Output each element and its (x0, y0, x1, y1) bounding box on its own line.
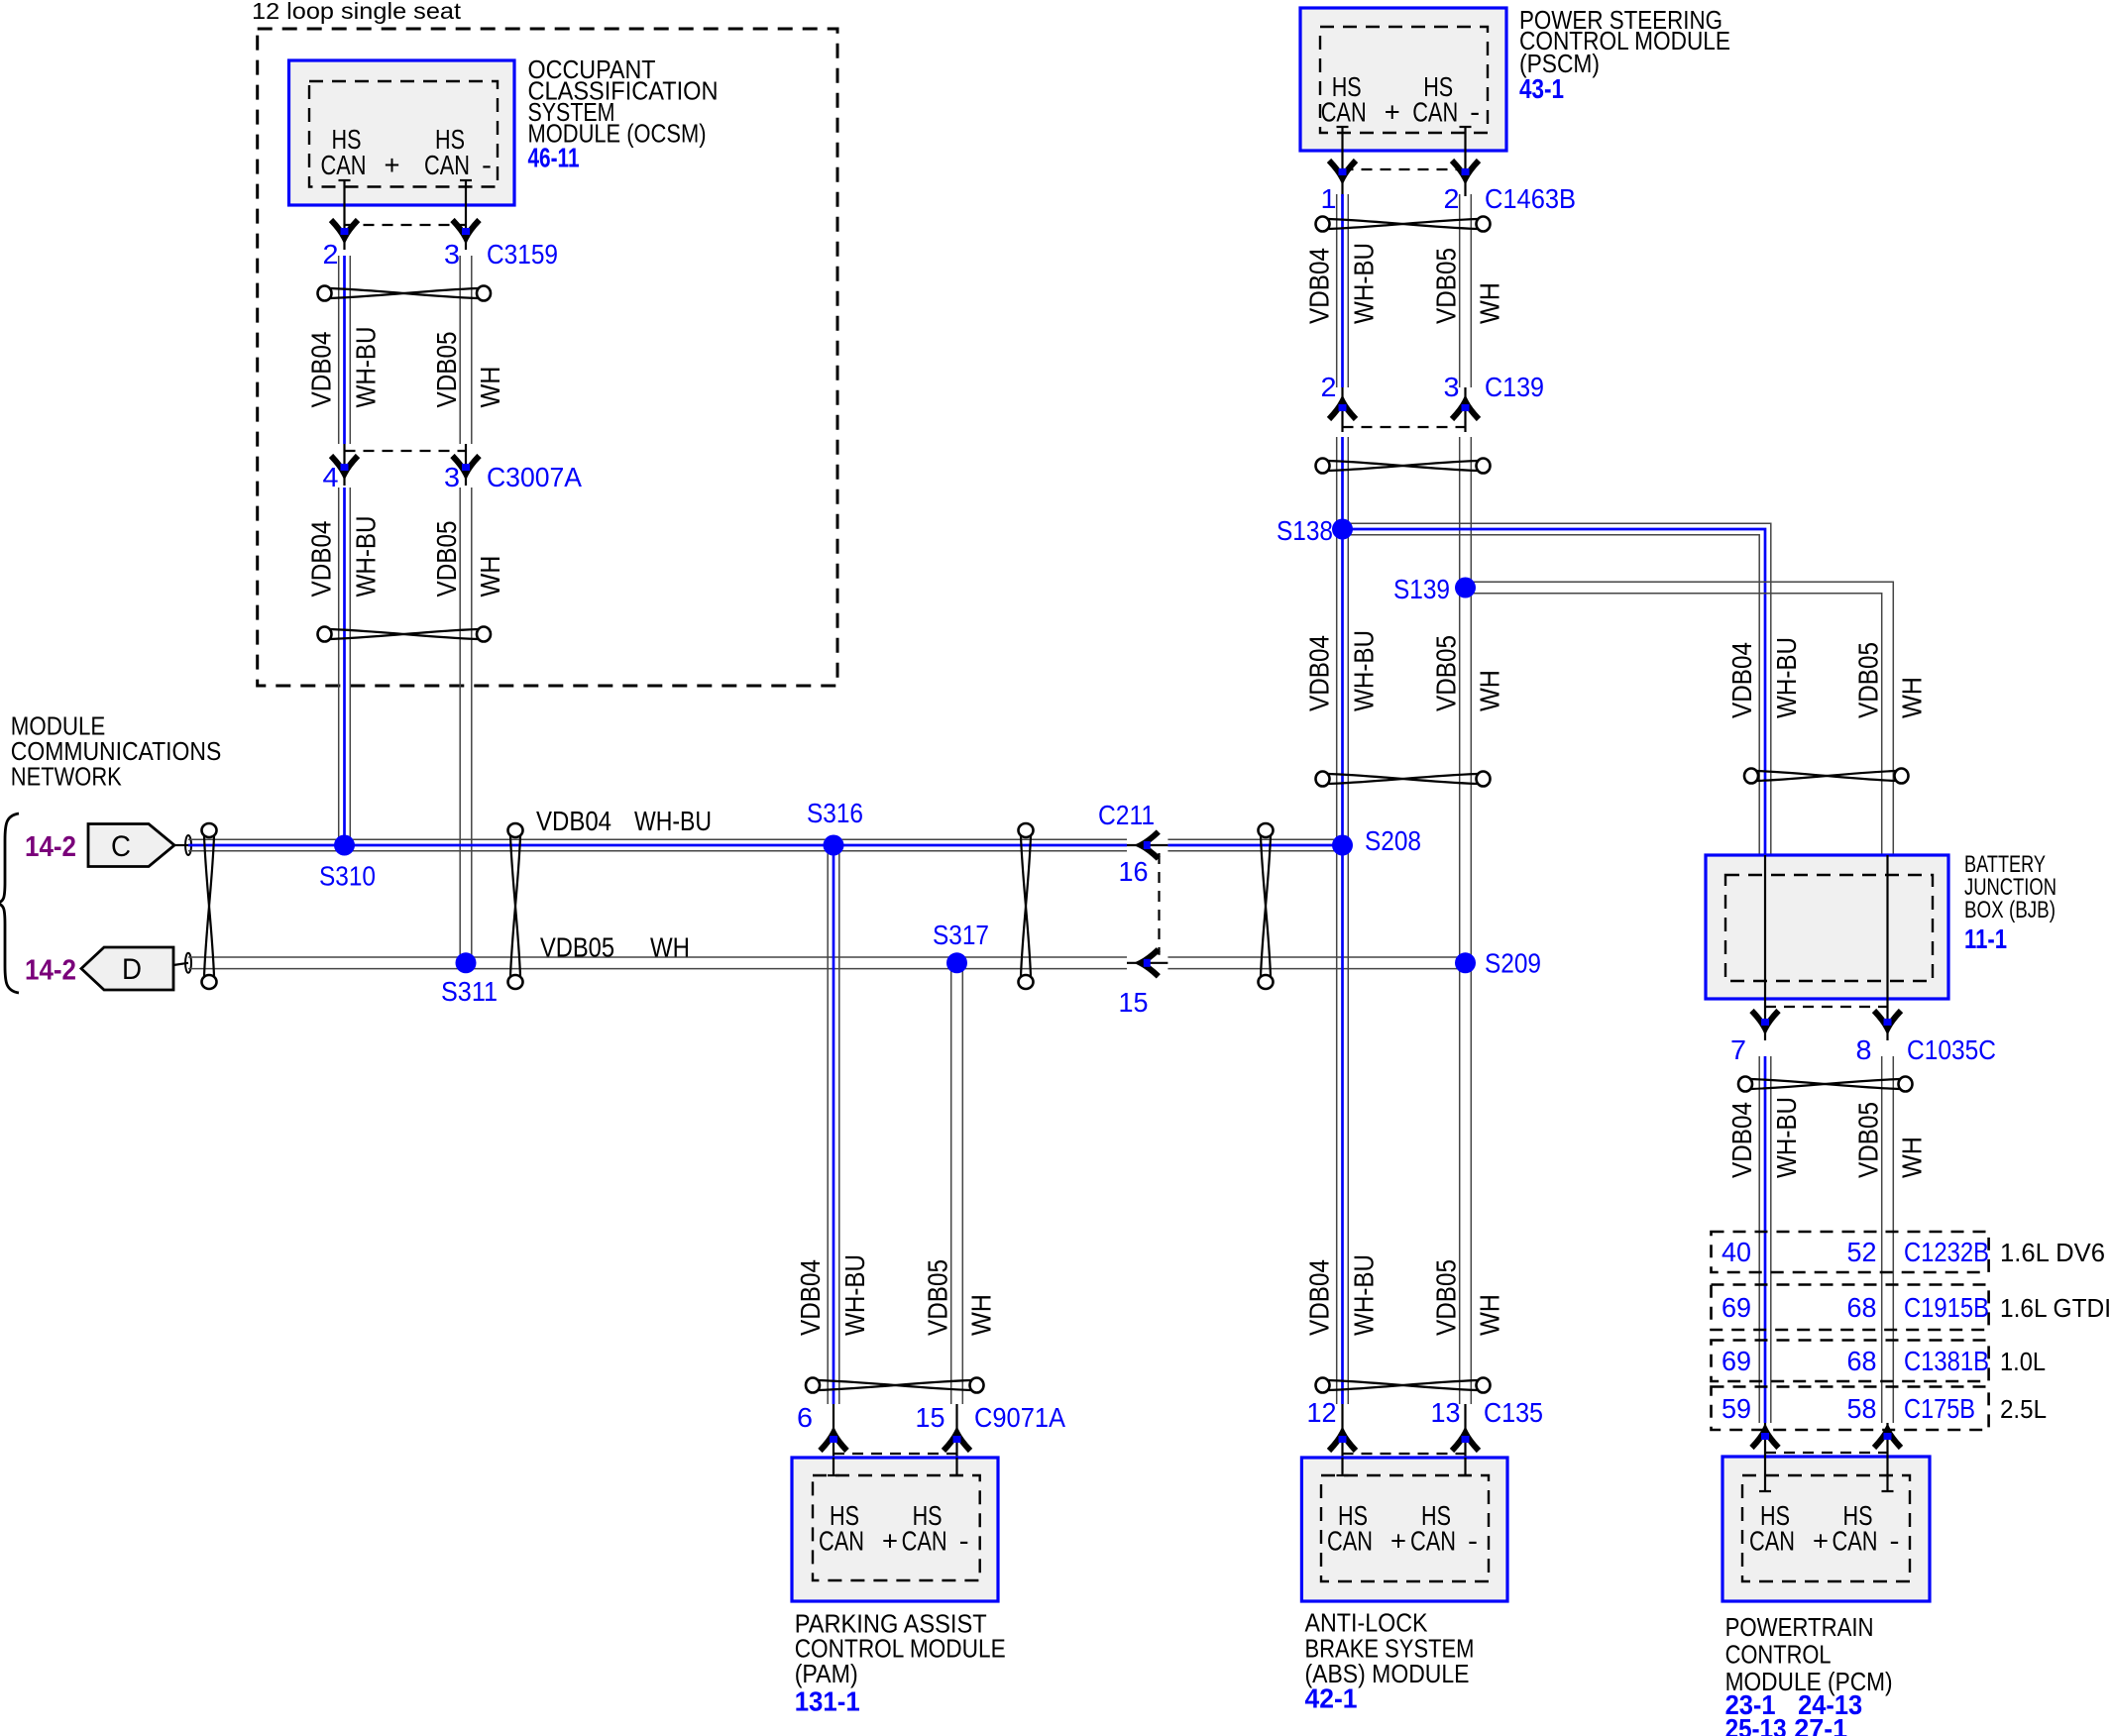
connector C1463B pin 1 arrow (1329, 161, 1356, 178)
svg-text:-: - (1468, 1525, 1478, 1556)
svg-text:52: 52 (1847, 1237, 1877, 1267)
connector C9071A pin 6 lead (833, 1404, 834, 1458)
connector C9071A pin 6 number (797, 1402, 813, 1433)
bus wire VDB05 WH (C211 to S209) (1167, 957, 1465, 969)
wire labels (S139 to S208 segment) (1304, 630, 1505, 711)
wire VDB04 WH-BU (PSCM seg1) (1337, 194, 1349, 387)
connector C1232B name (1904, 1237, 1989, 1267)
bus label WH (650, 932, 690, 963)
svg-text:VDB04: VDB04 (795, 1259, 826, 1336)
wire labels (ABS column) (1304, 1254, 1505, 1336)
svg-text:C1915B: C1915B (1904, 1292, 1989, 1323)
module BJB box (1706, 855, 1948, 999)
connector C211 pin 15 lead (1127, 962, 1167, 964)
svg-text:VDB04: VDB04 (1726, 642, 1757, 718)
connector C3007A dashed link (345, 450, 467, 452)
engine option box 1.6L GTDI connector C1915B (1712, 1285, 1989, 1331)
svg-text:-: - (1890, 1525, 1900, 1556)
svg-text:WH: WH (966, 1294, 997, 1336)
svg-text:16: 16 (1119, 856, 1149, 887)
svg-text:WH: WH (1897, 1137, 1928, 1178)
svg-text:CAN: CAN (1833, 1525, 1878, 1556)
svg-text:VDB05: VDB05 (431, 521, 462, 597)
connector C139 pin 2 arrow (1329, 401, 1356, 419)
branch wire VDB04 WH-BU (S138 to BJB) (1343, 523, 1771, 855)
brace (0, 814, 19, 993)
connector C9071A dashed link (833, 1453, 957, 1455)
svg-text:15: 15 (916, 1402, 945, 1433)
connector C1463B pin 2 arrow (1452, 161, 1479, 178)
module ABS pin labels (1327, 1500, 1478, 1557)
PCM pin lead left (1759, 1423, 1771, 1491)
svg-text:+: + (1813, 1525, 1829, 1556)
svg-text:WH-BU: WH-BU (839, 1254, 870, 1336)
connector C1915B name (1904, 1292, 1989, 1323)
svg-text:14-2: 14-2 (25, 831, 76, 863)
svg-text:VDB05: VDB05 (923, 1259, 953, 1336)
svg-text:(PAM): (PAM) (795, 1659, 858, 1688)
connector C139 pin 3 arrow (1452, 401, 1479, 419)
svg-text:C9071A: C9071A (974, 1402, 1065, 1433)
svg-text:WH-BU: WH-BU (1349, 1254, 1380, 1336)
PCM connector dashed link (1765, 1452, 1888, 1454)
svg-text:CAN: CAN (902, 1525, 947, 1556)
PAM pin leads inside box (828, 1458, 963, 1475)
connector C139 pin 2 number (1321, 372, 1337, 402)
svg-text:1.6L GTDI: 1.6L GTDI (2000, 1293, 2111, 1323)
connector C1035C name (1907, 1034, 1996, 1065)
PCM pin arrow right (1874, 1430, 1901, 1448)
connector C9071A name (974, 1402, 1065, 1433)
off-page connector D flag (81, 947, 173, 990)
svg-text:VDB05: VDB05 (1431, 635, 1462, 711)
svg-text:VDB04: VDB04 (536, 806, 611, 836)
svg-text:S209: S209 (1485, 948, 1541, 979)
svg-text:1.0L: 1.0L (2000, 1347, 2046, 1376)
svg-text:WH: WH (1475, 1294, 1505, 1336)
connector C175B name (1904, 1393, 1975, 1424)
splice S139 label (1393, 574, 1450, 604)
connector C1463B name (1485, 183, 1576, 214)
branch wire VDB05 WH (S139 to BJB) (1466, 582, 1894, 855)
svg-text:S138: S138 (1277, 515, 1333, 546)
splice S311 (441, 952, 498, 1007)
svg-text:46-11: 46-11 (528, 143, 580, 173)
connector C1463B pin 2 number (1444, 183, 1460, 214)
module BJB page ref 11-1 (1964, 923, 2007, 954)
connector C135 pin 13 lead (1464, 1404, 1466, 1458)
splice S316 (807, 798, 863, 856)
module PSCM page ref 43-1 (1519, 73, 1564, 104)
svg-text:VDB04: VDB04 (1304, 1259, 1335, 1336)
connector C1463B pin 1 number (1321, 183, 1337, 214)
connector C211 pin 16 arrow (1141, 832, 1159, 859)
PCM pin arrow left (1752, 1430, 1779, 1448)
wire labels (OCSM seg1) (306, 327, 506, 408)
connector C3159 pin 3 arrow (453, 220, 480, 238)
module PSCM pin labels (1321, 71, 1481, 128)
svg-text:S310: S310 (319, 861, 376, 892)
svg-text:POWERTRAIN: POWERTRAIN (1725, 1612, 1874, 1642)
bus label VDB04 (536, 806, 611, 836)
svg-text:13: 13 (1431, 1397, 1461, 1428)
BJB internal wire right (1886, 855, 1888, 1040)
svg-text:VDB05: VDB05 (1431, 248, 1462, 324)
engine label 1.0L (2000, 1347, 2046, 1376)
svg-text:C3159: C3159 (487, 239, 558, 270)
svg-text:S311: S311 (441, 976, 498, 1007)
bus wire VDB04 WH-BU (C211 to S208) (1167, 839, 1342, 851)
connector C1035C dashed link (1765, 1006, 1888, 1008)
engine option box 1.6L DV6 connector C1232B (1712, 1232, 1989, 1272)
connector C1035C pin 7 arrow (1752, 1011, 1779, 1029)
svg-text:25-13: 25-13 (1725, 1713, 1787, 1736)
svg-text:+: + (1390, 1525, 1406, 1556)
module PCM page refs (1725, 1689, 1863, 1736)
connector C3007A pin 4 arrow (331, 456, 358, 474)
connector C175B pin 59 number (1722, 1393, 1751, 1424)
svg-text:14-2: 14-2 (25, 955, 76, 987)
PCM pin lead right (1882, 1423, 1894, 1491)
wire VDB04 WH-BU (C139 to ABS) (1337, 437, 1349, 1404)
wire VDB05 WH (OCSM seg2) (460, 488, 472, 963)
svg-text:C: C (111, 830, 131, 863)
connector C1232B pin 52 number (1847, 1237, 1877, 1267)
OCSM pin 2 lead wire (339, 180, 351, 250)
svg-text:VDB04: VDB04 (1726, 1102, 1757, 1178)
connector C211 pin 16 number (1119, 856, 1149, 887)
engine label 1.6L GTDI (2000, 1293, 2111, 1323)
svg-text:1: 1 (1321, 183, 1337, 214)
BJB internal wire left (1764, 855, 1766, 1040)
twisted pair symbol (below C139) (1316, 459, 1491, 474)
svg-text:131-1: 131-1 (795, 1686, 860, 1717)
connector C1463B dashed link (1343, 168, 1466, 170)
connector C211 pin 15 number (1119, 987, 1149, 1018)
svg-text:WH: WH (1897, 677, 1928, 718)
svg-text:+: + (882, 1525, 898, 1556)
svg-text:WH-BU: WH-BU (1349, 630, 1380, 711)
svg-text:WH: WH (475, 556, 505, 597)
connector C139 pin 3 lead (1464, 387, 1466, 432)
svg-text:+: + (385, 150, 400, 180)
svg-text:C175B: C175B (1904, 1393, 1975, 1424)
svg-text:4: 4 (323, 462, 339, 492)
svg-text:3: 3 (1444, 372, 1460, 402)
svg-text:C135: C135 (1484, 1397, 1543, 1428)
connector C3159 pin 2 arrow (331, 220, 358, 238)
connector C211 pin 15 arrow (1141, 949, 1159, 976)
engine label 2.5L (2000, 1394, 2047, 1424)
module BJB name label (1964, 851, 2056, 923)
engine label 1.6L DV6 (2000, 1238, 2105, 1267)
bus twisted pair symbol 1 (202, 823, 217, 989)
connector C3159 pin 2 number (323, 239, 339, 270)
svg-text:11-1: 11-1 (1964, 923, 2007, 954)
connector C1035C pin 8 number (1856, 1034, 1872, 1065)
wire VDB05 WH (PAM column) (951, 963, 963, 1404)
svg-text:S139: S139 (1393, 574, 1450, 604)
svg-text:69: 69 (1722, 1346, 1751, 1376)
connector C9071A pin 15 arrow (944, 1433, 970, 1451)
splice S208 (1332, 825, 1421, 856)
bus twisted pair symbol 2 (508, 823, 523, 989)
wire labels (BJB to PCM) (1726, 1097, 1928, 1178)
bus wire VDB04 WH-BU (left of C211) (188, 839, 1127, 851)
svg-text:1.6L DV6: 1.6L DV6 (2000, 1238, 2105, 1267)
svg-text:VDB04: VDB04 (306, 332, 337, 408)
svg-text:42-1: 42-1 (1305, 1683, 1358, 1714)
svg-text:WH-BU: WH-BU (1349, 243, 1380, 324)
connector C1381B name (1904, 1346, 1989, 1376)
module PCM box (1722, 1457, 1930, 1601)
module PSCM name label (1519, 5, 1730, 78)
wire VDB04 WH-BU (BJB to PCM) (1759, 1056, 1771, 1423)
svg-text:S208: S208 (1365, 825, 1421, 856)
svg-text:WH: WH (1475, 670, 1505, 711)
svg-text:CAN: CAN (1412, 97, 1458, 128)
connector C139 pin 3 number (1444, 372, 1460, 402)
svg-text:C3007A: C3007A (487, 462, 582, 492)
connector C135 pin 12 lead (1341, 1404, 1343, 1458)
connector C211 name (1098, 800, 1155, 830)
bus1 start loop (185, 835, 191, 855)
bus twisted pair symbol 3 (1019, 823, 1034, 989)
connector C3159 name (487, 239, 558, 270)
connector C3159 pin 3 number (444, 239, 460, 270)
connector C1915B pin 69 number (1722, 1292, 1751, 1323)
module PAM box (792, 1458, 998, 1601)
svg-text:-: - (1470, 97, 1480, 128)
ABS pin leads inside box (1337, 1458, 1472, 1475)
svg-text:WH: WH (650, 932, 690, 963)
splice S310 (319, 835, 376, 892)
splice S209 (1455, 948, 1541, 979)
twisted pair symbol (PSCM seg1) (1316, 217, 1491, 232)
svg-text:15: 15 (1119, 987, 1149, 1018)
label 12 loop single seat (252, 0, 462, 24)
svg-text:C1381B: C1381B (1904, 1346, 1989, 1376)
svg-text:VDB04: VDB04 (1304, 248, 1335, 324)
svg-text:8: 8 (1856, 1034, 1872, 1065)
svg-text:CAN: CAN (1749, 1525, 1795, 1556)
connector C135 pin 13 number (1431, 1397, 1461, 1428)
module ABS page ref 42-1 (1305, 1683, 1358, 1714)
svg-text:CAN: CAN (1410, 1525, 1456, 1556)
svg-text:CAN: CAN (819, 1525, 864, 1556)
module OCSM pin labels HS CAN+ / HS CAN- (321, 124, 493, 180)
module PAM page ref 131-1 (795, 1686, 860, 1717)
svg-text:68: 68 (1847, 1346, 1877, 1376)
connector C3159 dashed link (345, 224, 467, 226)
connector C1381B pin 69 number (1722, 1346, 1751, 1376)
svg-text:69: 69 (1722, 1292, 1751, 1323)
twisted pair symbol (BJB to PCM) (1738, 1077, 1913, 1092)
splice S138 dot (1332, 519, 1353, 540)
module PCM name label (1725, 1612, 1893, 1696)
svg-text:WH-BU: WH-BU (351, 516, 382, 597)
wire VDB05 WH (PSCM seg1) (1460, 194, 1472, 387)
svg-text:3: 3 (444, 462, 460, 492)
svg-text:2: 2 (1321, 372, 1337, 402)
svg-text:40: 40 (1722, 1237, 1751, 1267)
splice S138 label (1277, 515, 1333, 546)
svg-text:CAN: CAN (424, 150, 470, 180)
svg-text:VDB05: VDB05 (1431, 1259, 1462, 1336)
module OCSM name label (528, 54, 719, 149)
svg-text:VDB05: VDB05 (1853, 1102, 1884, 1178)
OCSM pin 3 lead wire (460, 180, 472, 250)
wire labels (OCSM seg2) (306, 516, 506, 597)
bus2 start loop (185, 953, 191, 973)
svg-text:WH-BU: WH-BU (1771, 637, 1802, 718)
module PSCM box (1300, 8, 1506, 151)
svg-text:S317: S317 (933, 920, 989, 950)
module PAM name label (795, 1608, 1006, 1688)
bus label WH-BU (634, 806, 712, 836)
connector C139 pin 2 lead (1341, 387, 1343, 432)
connector C139 dashed link (1343, 426, 1466, 428)
bus label VDB05 (540, 932, 614, 963)
svg-text:C1035C: C1035C (1907, 1034, 1996, 1065)
module ABS box (1301, 1458, 1507, 1601)
svg-text:59: 59 (1722, 1393, 1751, 1424)
svg-text:C139: C139 (1485, 372, 1544, 402)
connector C3007A pin 3 lead (465, 444, 467, 486)
wire VDB05 WH (OCSM seg1) (460, 256, 472, 444)
svg-text:C1463B: C1463B (1485, 183, 1576, 214)
harness option box '12 loop single seat' (258, 29, 837, 686)
svg-text:NETWORK: NETWORK (11, 762, 123, 792)
off-page ref 14-2 (D) (25, 955, 76, 987)
connector C3007A pin 3 number (444, 462, 460, 492)
svg-text:+: + (1385, 97, 1400, 128)
module PAM pin labels (819, 1500, 969, 1557)
svg-text:WH: WH (1475, 282, 1505, 324)
connector C211 dashed link (1158, 853, 1160, 955)
svg-text:VDB04: VDB04 (1304, 635, 1335, 711)
svg-text:C1232B: C1232B (1904, 1237, 1989, 1267)
svg-text:BOX (BJB): BOX (BJB) (1964, 897, 2055, 923)
connector C211 pin 16 lead (1127, 844, 1167, 846)
wire VDB05 WH (BJB to PCM) (1882, 1056, 1894, 1423)
connector C1381B pin 68 number (1847, 1346, 1877, 1376)
engine option box 1.0L connector C1381B (1712, 1341, 1989, 1382)
connector C135 pin 13 arrow (1452, 1433, 1479, 1451)
wire VDB04 WH-BU (OCSM seg2) (339, 488, 351, 845)
off-page connector C flag (88, 824, 174, 867)
link C flag to bus1 (174, 844, 188, 846)
connector C3007A pin 4 lead (343, 444, 345, 486)
svg-text:43-1: 43-1 (1519, 73, 1564, 104)
svg-text:D: D (122, 953, 142, 986)
bus wire VDB05 WH (left of C211) (188, 957, 1127, 969)
twisted pair symbol (BJB branch) (1744, 769, 1909, 784)
connector C9071A pin 15 lead (955, 1404, 957, 1458)
svg-text:6: 6 (797, 1402, 813, 1433)
twisted pair symbol (PAM column) (806, 1378, 984, 1393)
splice S317 (933, 920, 989, 973)
off-page ref 14-2 (C) (25, 831, 76, 863)
svg-text:WH-BU: WH-BU (634, 806, 712, 836)
PSCM pin leads (1337, 127, 1472, 196)
svg-text:-: - (482, 150, 492, 180)
engine option box 2.5L connector C175B (1712, 1387, 1989, 1431)
svg-text:WH-BU: WH-BU (351, 327, 382, 408)
label module communications network (11, 711, 222, 792)
wire VDB04 WH-BU (OCSM seg1) (339, 256, 351, 444)
svg-text:-: - (959, 1525, 969, 1556)
svg-text:2: 2 (323, 239, 339, 270)
connector C1915B pin 68 number (1847, 1292, 1877, 1323)
wire labels (PSCM seg1) (1304, 243, 1505, 324)
connector C3007A pin 4 number (323, 462, 339, 492)
svg-text:WH: WH (475, 367, 505, 408)
connector C3007A name (487, 462, 582, 492)
svg-text:58: 58 (1847, 1393, 1877, 1424)
connector C135 pin 12 number (1307, 1397, 1337, 1428)
connector C135 name (1484, 1397, 1543, 1428)
svg-text:12 loop single seat: 12 loop single seat (252, 0, 462, 24)
svg-text:S316: S316 (807, 798, 863, 828)
module ABS name label (1305, 1608, 1475, 1688)
svg-text:7: 7 (1730, 1034, 1746, 1065)
connector C1035C pin 8 arrow (1874, 1011, 1901, 1029)
connector C9071A pin 15 number (916, 1402, 945, 1433)
connector C139 name (1485, 372, 1544, 402)
svg-text:WH-BU: WH-BU (1771, 1097, 1802, 1178)
svg-text:CONTROL: CONTROL (1725, 1639, 1832, 1669)
svg-text:3: 3 (444, 239, 460, 270)
svg-text:2: 2 (1444, 183, 1460, 214)
wire VDB05 WH (C139 to ABS) (1460, 437, 1472, 1404)
module PCM pin labels (1749, 1500, 1900, 1557)
svg-text:2.5L: 2.5L (2000, 1394, 2047, 1424)
svg-text:CAN: CAN (1327, 1525, 1373, 1556)
svg-text:VDB05: VDB05 (1853, 642, 1884, 718)
bus twisted pair symbol 4 (1259, 823, 1274, 989)
twisted pair symbol (above bus) (1316, 772, 1491, 787)
svg-text:68: 68 (1847, 1292, 1877, 1323)
connector C135 dashed link (1343, 1453, 1466, 1455)
splice S139 dot (1455, 578, 1476, 598)
connector C135 pin 12 arrow (1329, 1433, 1356, 1451)
module OCSM page ref 46-11 (528, 143, 580, 173)
twisted pair symbol (OCSM seg2) (318, 627, 492, 642)
twisted pair symbol (OCSM seg1) (318, 286, 492, 301)
connector C3007A pin 3 arrow (453, 456, 480, 474)
connector C9071A pin 6 arrow (821, 1433, 847, 1451)
connector C1232B pin 40 number (1722, 1237, 1751, 1267)
wire labels (PAM column) (795, 1254, 997, 1336)
link D flag to bus2 (173, 963, 188, 965)
wire VDB04 WH-BU (PAM column) (828, 845, 839, 1404)
connector C175B pin 58 number (1847, 1393, 1877, 1424)
module OCSM box (289, 60, 515, 205)
svg-text:CAN: CAN (1321, 97, 1367, 128)
svg-text:12: 12 (1307, 1397, 1337, 1428)
connector C1035C pin 7 number (1730, 1034, 1746, 1065)
svg-text:27-1: 27-1 (1794, 1713, 1847, 1736)
wire labels (BJB branch) (1726, 637, 1928, 718)
twisted pair symbol (ABS column) (1316, 1378, 1491, 1393)
svg-text:VDB05: VDB05 (431, 332, 462, 408)
svg-text:C211: C211 (1098, 800, 1155, 830)
svg-text:CAN: CAN (321, 150, 367, 180)
svg-text:VDB04: VDB04 (306, 521, 337, 597)
svg-text:VDB05: VDB05 (540, 932, 614, 963)
